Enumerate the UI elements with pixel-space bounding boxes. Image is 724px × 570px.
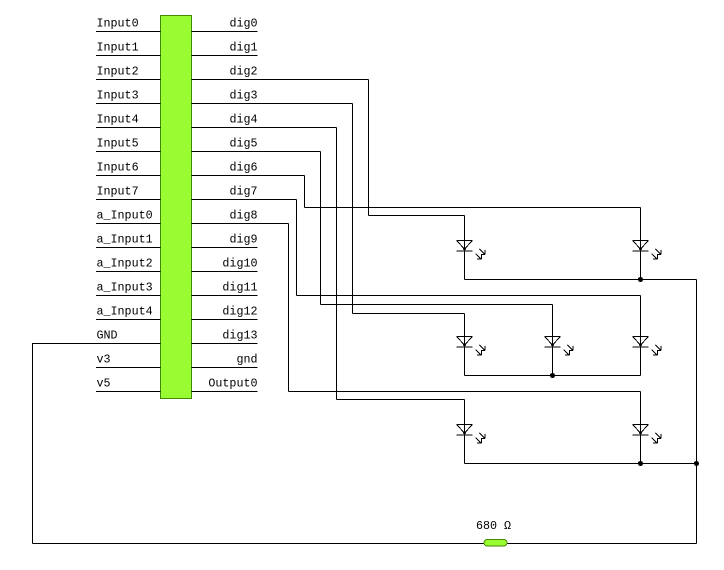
svg-text:dig5: dig5: [229, 137, 257, 151]
svg-text:Input5: Input5: [97, 137, 139, 151]
svg-text:a_Input3: a_Input3: [97, 281, 153, 295]
svg-text:dig11: dig11: [222, 281, 257, 295]
svg-text:a_Input2: a_Input2: [97, 257, 153, 271]
svg-text:Input3: Input3: [97, 89, 139, 103]
svg-text:v5: v5: [97, 377, 111, 391]
svg-text:Input0: Input0: [97, 17, 139, 31]
svg-text:Input4: Input4: [97, 113, 139, 127]
svg-text:dig4: dig4: [229, 113, 257, 127]
svg-text:dig3: dig3: [229, 89, 257, 103]
svg-text:Input1: Input1: [97, 41, 139, 55]
svg-text:dig12: dig12: [222, 305, 257, 319]
svg-text:dig8: dig8: [229, 209, 257, 223]
svg-text:Input7: Input7: [97, 185, 139, 199]
svg-text:a_Input1: a_Input1: [97, 233, 153, 247]
svg-text:dig9: dig9: [229, 233, 257, 247]
svg-text:Output0: Output0: [208, 377, 257, 391]
svg-text:a_Input4: a_Input4: [97, 305, 153, 319]
svg-text:gnd: gnd: [236, 353, 257, 367]
svg-text:v3: v3: [97, 353, 111, 367]
svg-text:dig1: dig1: [229, 41, 257, 55]
svg-text:Input6: Input6: [97, 161, 139, 175]
svg-text:dig13: dig13: [222, 329, 257, 343]
svg-text:GND: GND: [97, 329, 118, 343]
svg-text:Input2: Input2: [97, 65, 139, 79]
svg-text:dig10: dig10: [222, 257, 257, 271]
svg-text:dig6: dig6: [229, 161, 257, 175]
svg-text:dig7: dig7: [229, 185, 257, 199]
svg-text:dig2: dig2: [229, 65, 257, 79]
svg-text:dig0: dig0: [229, 17, 257, 31]
svg-text:680 Ω: 680 Ω: [476, 519, 511, 533]
svg-text:a_Input0: a_Input0: [97, 209, 153, 223]
